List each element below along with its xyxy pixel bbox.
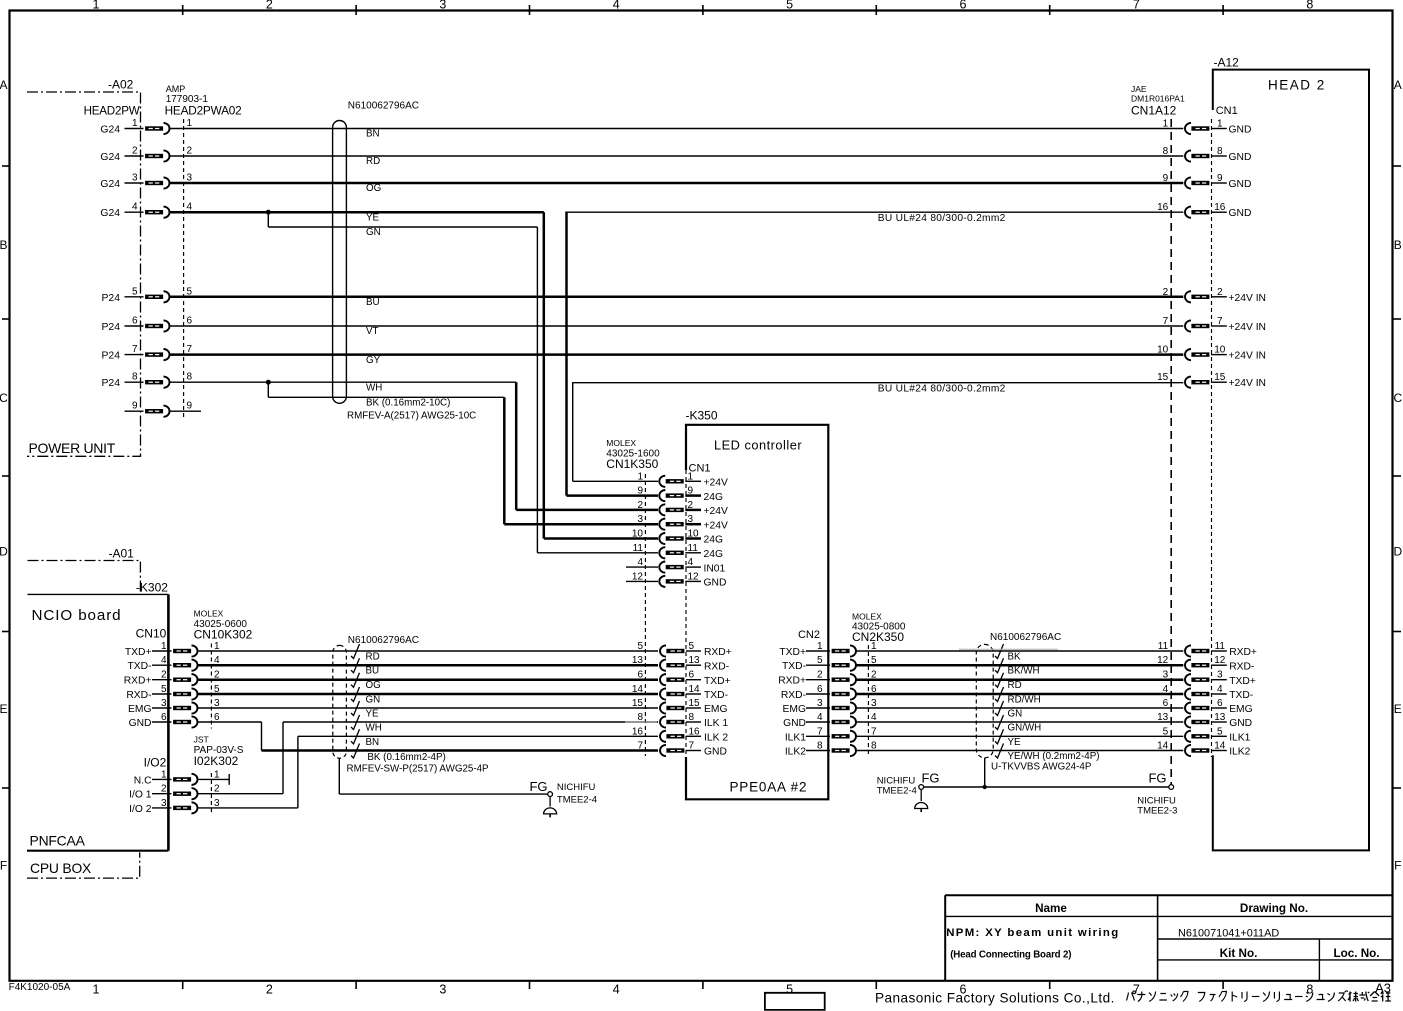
svg-text:JAE: JAE [1131, 84, 1147, 94]
svg-text:A: A [0, 78, 8, 92]
svg-text:NICHIFU: NICHIFU [557, 782, 596, 793]
svg-text:I/O 1: I/O 1 [129, 790, 152, 801]
svg-text:6: 6 [689, 670, 695, 681]
svg-text:GN: GN [1008, 709, 1023, 720]
svg-text:GND: GND [1229, 152, 1252, 163]
svg-text:Name: Name [1035, 902, 1067, 915]
svg-text:14: 14 [1157, 741, 1169, 752]
svg-text:BN: BN [366, 129, 380, 140]
svg-text:GND: GND [783, 718, 806, 729]
svg-text:8: 8 [187, 372, 193, 383]
svg-text:ILK 1: ILK 1 [704, 718, 728, 729]
svg-text:14: 14 [1214, 741, 1226, 752]
svg-text:RXD-: RXD- [126, 690, 151, 701]
svg-text:7: 7 [132, 344, 138, 355]
svg-text:ILK1: ILK1 [1229, 733, 1250, 744]
svg-text:ILK 2: ILK 2 [704, 733, 728, 744]
svg-text:CN2: CN2 [798, 629, 820, 641]
svg-text:BU: BU [366, 666, 380, 677]
svg-text:1: 1 [187, 118, 193, 129]
svg-text:EMG: EMG [128, 704, 151, 715]
svg-text:GN: GN [366, 695, 381, 706]
svg-text:16: 16 [1157, 202, 1169, 213]
svg-text:6: 6 [1163, 698, 1169, 709]
svg-text:2: 2 [871, 670, 877, 681]
svg-text:GN: GN [366, 227, 381, 238]
svg-text:PNFCAA: PNFCAA [30, 833, 86, 849]
svg-text:BU: BU [366, 297, 380, 308]
svg-text:P24: P24 [102, 351, 121, 362]
svg-text:TXD-: TXD- [782, 661, 806, 672]
svg-text:2: 2 [266, 983, 273, 997]
svg-text:2: 2 [266, 0, 273, 12]
svg-text:+24V IN: +24V IN [1229, 378, 1267, 389]
svg-text:4: 4 [132, 202, 138, 213]
svg-text:ILK2: ILK2 [785, 747, 806, 758]
svg-text:RMFEV-A(2517) AWG25-10C: RMFEV-A(2517) AWG25-10C [347, 411, 476, 422]
svg-text:15: 15 [1214, 372, 1226, 383]
svg-text:POWER UNIT: POWER UNIT [29, 440, 116, 456]
svg-text:1: 1 [871, 641, 877, 652]
svg-text:CN10: CN10 [136, 627, 167, 641]
svg-text:C: C [1393, 391, 1402, 405]
svg-text:13: 13 [1157, 712, 1169, 723]
svg-text:TXD-: TXD- [704, 690, 728, 701]
svg-text:MOLEX: MOLEX [852, 612, 882, 622]
svg-text:4: 4 [688, 557, 694, 568]
svg-text:BU UL#24 80/300-0.2mm2: BU UL#24 80/300-0.2mm2 [878, 213, 1006, 224]
svg-text:I02K302: I02K302 [194, 754, 239, 768]
svg-text:G24: G24 [100, 179, 120, 190]
svg-text:9: 9 [132, 401, 138, 412]
svg-text:7: 7 [1217, 316, 1223, 327]
svg-text:RXD+: RXD+ [778, 676, 806, 687]
svg-text:3: 3 [688, 514, 694, 525]
svg-text:24G: 24G [704, 549, 723, 560]
svg-text:6: 6 [871, 684, 877, 695]
svg-text:4: 4 [613, 983, 620, 997]
svg-text:RXD-: RXD- [704, 661, 729, 672]
svg-text:NPM: XY beam unit wiring: NPM: XY beam unit wiring [946, 927, 1119, 939]
svg-text:TMEE2-4: TMEE2-4 [877, 785, 917, 796]
svg-text:7: 7 [1133, 0, 1140, 12]
svg-text:10: 10 [1214, 345, 1226, 356]
svg-text:OG: OG [366, 183, 381, 194]
svg-text:BK/WH: BK/WH [1008, 666, 1040, 677]
svg-text:MOLEX: MOLEX [606, 438, 636, 448]
svg-text:5: 5 [786, 983, 793, 997]
svg-text:13: 13 [1214, 712, 1226, 723]
svg-text:9: 9 [688, 486, 694, 497]
svg-text:Panasonic Factory Solutions Co: Panasonic Factory Solutions Co.,Ltd. [875, 991, 1115, 1006]
svg-text:4: 4 [613, 0, 620, 12]
svg-text:FG: FG [921, 771, 939, 786]
svg-text:OG: OG [366, 680, 381, 691]
svg-text:HEAD2PWA02: HEAD2PWA02 [165, 104, 242, 118]
svg-text:6: 6 [1217, 698, 1223, 709]
svg-text:RD/WH: RD/WH [1008, 695, 1041, 706]
svg-text:IN01: IN01 [704, 563, 726, 574]
svg-text:+24V IN: +24V IN [1229, 322, 1267, 333]
svg-text:5: 5 [1217, 726, 1223, 737]
svg-text:AMP: AMP [166, 84, 186, 94]
svg-text:4: 4 [1163, 684, 1169, 695]
svg-text:+24V: +24V [704, 478, 728, 489]
svg-text:F4K1020-05A: F4K1020-05A [9, 982, 71, 993]
svg-text:3: 3 [439, 0, 446, 12]
svg-text:C: C [0, 391, 8, 405]
svg-text:MOLEX: MOLEX [194, 609, 224, 619]
svg-text:GND: GND [704, 747, 727, 758]
svg-text:7: 7 [871, 726, 877, 737]
svg-text:8: 8 [1306, 0, 1313, 12]
svg-text:9: 9 [1163, 173, 1169, 184]
svg-text:12: 12 [1157, 655, 1169, 666]
svg-text:10: 10 [1157, 345, 1169, 356]
svg-text:1: 1 [1217, 119, 1223, 130]
svg-text:GND: GND [1229, 125, 1252, 136]
svg-text:8: 8 [132, 372, 138, 383]
svg-text:+24V IN: +24V IN [1229, 351, 1267, 362]
svg-text:EMG: EMG [1229, 704, 1252, 715]
svg-text:ILK2: ILK2 [1229, 747, 1250, 758]
svg-text:GND: GND [1229, 179, 1252, 190]
svg-text:14: 14 [689, 684, 701, 695]
svg-text:GND: GND [1229, 208, 1252, 219]
svg-text:1: 1 [688, 471, 694, 482]
svg-text:YE: YE [366, 709, 380, 720]
svg-text:2: 2 [688, 500, 694, 511]
svg-text:E: E [1394, 702, 1402, 716]
svg-text:-K350: -K350 [686, 409, 718, 423]
svg-text:TXD-: TXD- [127, 661, 151, 672]
svg-text:6: 6 [132, 316, 138, 327]
svg-text:LED controller: LED controller [714, 438, 802, 453]
svg-text:EMG: EMG [704, 704, 727, 715]
svg-text:3: 3 [1163, 670, 1169, 681]
svg-text:RXD-: RXD- [781, 690, 806, 701]
svg-text:BK (0.16mm2-4P): BK (0.16mm2-4P) [367, 752, 445, 763]
svg-text:1: 1 [93, 0, 100, 12]
svg-text:7: 7 [689, 741, 695, 752]
svg-text:B: B [0, 238, 8, 252]
svg-text:9: 9 [187, 401, 193, 412]
svg-text:GND: GND [704, 578, 727, 589]
svg-text:6: 6 [960, 0, 967, 12]
svg-text:P24: P24 [102, 378, 121, 389]
svg-text:I/O2: I/O2 [144, 756, 167, 770]
svg-text:24G: 24G [704, 535, 723, 546]
svg-text:15: 15 [1157, 372, 1169, 383]
svg-text:5: 5 [871, 655, 877, 666]
svg-text:2: 2 [187, 146, 193, 157]
svg-text:N610062796AC: N610062796AC [348, 635, 419, 646]
svg-text:CN1: CN1 [1216, 105, 1238, 117]
svg-text:2: 2 [1217, 287, 1223, 298]
svg-text:5: 5 [786, 0, 793, 12]
svg-text:16: 16 [1214, 202, 1226, 213]
svg-text:TXD+: TXD+ [704, 676, 731, 687]
svg-text:5: 5 [132, 286, 138, 297]
svg-text:A: A [1394, 78, 1402, 92]
svg-text:Drawing No.: Drawing No. [1240, 902, 1308, 915]
svg-text:E: E [0, 702, 8, 716]
svg-text:FG: FG [1148, 771, 1166, 786]
svg-text:-A12: -A12 [1214, 56, 1240, 70]
svg-text:TMEE2-3: TMEE2-3 [1137, 806, 1177, 817]
svg-text:YE/WH (0.2mm2-4P): YE/WH (0.2mm2-4P) [1008, 751, 1100, 762]
svg-text:8: 8 [1163, 146, 1169, 157]
svg-text:G24: G24 [100, 152, 120, 163]
svg-text:10: 10 [688, 529, 700, 540]
svg-text:P24: P24 [102, 293, 121, 304]
svg-text:BK: BK [1008, 652, 1022, 663]
svg-text:12: 12 [1214, 655, 1226, 666]
svg-text:CN2K350: CN2K350 [852, 630, 904, 644]
svg-text:3: 3 [871, 698, 877, 709]
svg-text:JST: JST [194, 735, 209, 745]
svg-text:HEAD 2: HEAD 2 [1268, 78, 1326, 93]
svg-text:DM1R016PA1: DM1R016PA1 [1131, 94, 1185, 104]
svg-text:GND: GND [1229, 718, 1252, 729]
svg-text:13: 13 [689, 655, 701, 666]
svg-text:+24V IN: +24V IN [1229, 293, 1267, 304]
svg-text:7: 7 [1163, 316, 1169, 327]
svg-text:16: 16 [689, 726, 701, 737]
svg-text:TMEE2-4: TMEE2-4 [557, 794, 597, 805]
svg-text:P24: P24 [102, 322, 121, 333]
svg-text:+24V: +24V [704, 520, 728, 531]
svg-text:-K302: -K302 [136, 581, 168, 595]
svg-text:CN10K302: CN10K302 [194, 628, 253, 642]
svg-text:2: 2 [1163, 287, 1169, 298]
svg-text:D: D [0, 545, 8, 559]
svg-text:I/O 2: I/O 2 [129, 804, 152, 815]
svg-text:RXD+: RXD+ [1229, 647, 1257, 658]
svg-text:N610062796AC: N610062796AC [348, 101, 419, 112]
svg-text:FG: FG [529, 779, 547, 794]
svg-text:CN1K350: CN1K350 [606, 457, 658, 471]
svg-text:G24: G24 [100, 125, 120, 136]
svg-text:TXD+: TXD+ [1229, 676, 1256, 687]
svg-text:U-TKVVBS AWG24-4P: U-TKVVBS AWG24-4P [991, 762, 1092, 773]
svg-text:D: D [1393, 545, 1402, 559]
svg-text:GN/WH: GN/WH [1008, 723, 1042, 734]
svg-text:F: F [1394, 859, 1401, 873]
svg-text:11: 11 [1215, 641, 1226, 652]
svg-text:RD: RD [1008, 680, 1022, 691]
svg-text:8: 8 [871, 741, 877, 752]
svg-text:ILK1: ILK1 [785, 732, 806, 743]
svg-text:BK (0.16mm2-10C): BK (0.16mm2-10C) [366, 397, 450, 408]
svg-text:RD: RD [366, 156, 380, 167]
svg-text:HEAD2PW: HEAD2PW [84, 105, 140, 118]
svg-text:N.C: N.C [134, 775, 152, 786]
svg-text:2: 2 [132, 146, 138, 157]
svg-text:BN: BN [366, 737, 380, 748]
svg-text:RD: RD [366, 652, 380, 663]
svg-text:9: 9 [1217, 173, 1223, 184]
svg-text:1: 1 [1163, 119, 1169, 130]
svg-text:3: 3 [439, 983, 446, 997]
svg-text:NCIO board: NCIO board [32, 607, 122, 624]
svg-text:CN1A12: CN1A12 [1131, 104, 1177, 118]
svg-text:TXD-: TXD- [1229, 690, 1253, 701]
svg-text:N610071041+011AD: N610071041+011AD [1178, 928, 1279, 940]
svg-text:6: 6 [187, 316, 193, 327]
svg-text:8: 8 [1217, 146, 1223, 157]
svg-text:WH: WH [366, 382, 382, 393]
svg-text:RXD+: RXD+ [124, 676, 152, 687]
svg-text:11: 11 [688, 543, 699, 554]
svg-text:CPU BOX: CPU BOX [30, 860, 91, 876]
svg-text:GND: GND [129, 718, 152, 729]
svg-text:+24V: +24V [704, 506, 728, 517]
svg-text:RXD-: RXD- [1229, 661, 1254, 672]
svg-text:TXD+: TXD+ [779, 647, 806, 658]
svg-text:-A02: -A02 [108, 78, 134, 92]
svg-text:24G: 24G [704, 492, 723, 503]
svg-text:RMFEV-SW-P(2517) AWG25-4P: RMFEV-SW-P(2517) AWG25-4P [347, 764, 490, 775]
svg-text:GY: GY [366, 355, 381, 366]
svg-text:EMG: EMG [783, 704, 806, 715]
svg-text:(Head Connecting Board 2): (Head Connecting Board 2) [950, 950, 1071, 961]
svg-text:15: 15 [689, 698, 701, 709]
svg-text:YE: YE [366, 212, 380, 223]
svg-text:F: F [0, 859, 7, 873]
svg-text:WH: WH [366, 723, 382, 734]
svg-text:B: B [1394, 238, 1402, 252]
svg-text:5: 5 [1163, 726, 1169, 737]
svg-text:8: 8 [689, 712, 695, 723]
svg-text:RXD+: RXD+ [704, 647, 732, 658]
svg-text:5: 5 [689, 641, 695, 652]
svg-text:Loc. No.: Loc. No. [1333, 947, 1379, 960]
svg-text:N610062796AC: N610062796AC [990, 632, 1061, 643]
svg-text:YE: YE [1008, 737, 1022, 748]
svg-text:3: 3 [1217, 670, 1223, 681]
svg-text:1: 1 [93, 983, 100, 997]
svg-text:BU UL#24 80/300-0.2mm2: BU UL#24 80/300-0.2mm2 [878, 383, 1006, 394]
svg-text:4: 4 [871, 712, 877, 723]
svg-text:12: 12 [688, 571, 700, 582]
svg-text:-A01: -A01 [109, 547, 135, 561]
svg-text:11: 11 [1158, 641, 1169, 652]
svg-text:G24: G24 [100, 208, 120, 219]
svg-text:Kit No.: Kit No. [1220, 947, 1258, 960]
svg-text:VT: VT [366, 326, 379, 337]
svg-text:TXD+: TXD+ [125, 647, 152, 658]
svg-text:3: 3 [132, 173, 138, 184]
svg-text:1: 1 [132, 118, 138, 129]
svg-text:4: 4 [1217, 684, 1223, 695]
svg-text:PPE0AA #2: PPE0AA #2 [730, 780, 808, 795]
